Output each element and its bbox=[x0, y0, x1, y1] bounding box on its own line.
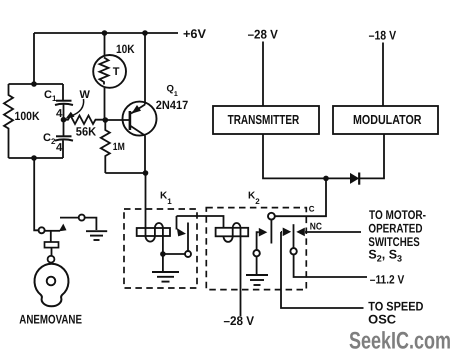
switch contact circle (vane common) bbox=[39, 227, 45, 233]
resistor 1M bbox=[101, 120, 110, 173]
svg-text:C2: C2 bbox=[43, 132, 56, 146]
wire coupler to eye bbox=[51, 248, 53, 256]
wire junction down to K2 common bbox=[275, 178, 326, 216]
wire to speed osc vertical bbox=[281, 232, 364, 308]
anemovane eye circle bbox=[48, 256, 55, 263]
svg-text:K2: K2 bbox=[248, 191, 260, 207]
svg-text:SeekIC.com: SeekIC.com bbox=[349, 328, 451, 355]
K2 right blade (NC) bbox=[293, 224, 295, 248]
wire collector down bbox=[144, 136, 146, 174]
resistor 56K bbox=[64, 116, 106, 125]
wire left drop from rail bbox=[33, 33, 35, 84]
box MODULATOR bbox=[333, 106, 438, 134]
node collector junction bbox=[143, 170, 149, 176]
K2 ground bbox=[246, 274, 268, 276]
wire 1M bottom to collector bbox=[105, 172, 145, 174]
K1 ground bbox=[162, 254, 164, 271]
switch blade with up arrow bbox=[45, 230, 60, 232]
svg-text:C1: C1 bbox=[44, 89, 57, 103]
transistor Q1 2N417 bbox=[123, 102, 157, 136]
resistor R 100K bbox=[4, 84, 13, 158]
wire diode to modulator bbox=[359, 134, 384, 178]
svg-text:+6V: +6V bbox=[183, 27, 207, 41]
anemovane body bbox=[35, 264, 69, 307]
wire emitter to rail bbox=[144, 33, 146, 105]
relay K1 dashed box bbox=[124, 209, 197, 288]
coupler rectangle bbox=[45, 242, 59, 248]
K2 left armature arrow from ground bbox=[257, 232, 259, 250]
wire NC with arrow bbox=[305, 231, 361, 233]
node rail-thermistor junction bbox=[102, 30, 108, 36]
svg-text:T: T bbox=[113, 66, 120, 78]
node base junction bbox=[103, 117, 109, 123]
diode CR1 bbox=[350, 173, 359, 184]
anemovane hub circle bbox=[47, 277, 56, 286]
Q1 base bar bbox=[129, 111, 132, 130]
relay K2 dashed box bbox=[206, 208, 306, 290]
ground (vane switch) bbox=[86, 230, 107, 232]
wire loop bottom bbox=[9, 157, 64, 159]
node loop bottom junction bbox=[31, 155, 37, 161]
svg-text:Q1: Q1 bbox=[167, 84, 178, 99]
svg-text:MODULATOR: MODULATOR bbox=[353, 112, 422, 127]
svg-text:4: 4 bbox=[56, 142, 63, 154]
svg-text:TRANSMITTER: TRANSMITTER bbox=[228, 112, 300, 127]
svg-text:100K: 100K bbox=[15, 109, 40, 123]
K1 blade bbox=[187, 223, 189, 252]
svg-text:W: W bbox=[80, 89, 91, 101]
Q1 emitter with arrow bbox=[131, 105, 145, 114]
wire -28V to transmitter bbox=[262, 42, 264, 107]
thermistor 10K wires bbox=[104, 33, 106, 55]
svg-text:1M: 1M bbox=[113, 141, 125, 153]
svg-text:S2, S3: S2, S3 bbox=[368, 248, 402, 264]
K2 coil bbox=[216, 228, 249, 237]
svg-text:OSC: OSC bbox=[368, 312, 396, 326]
svg-text:–28 V: –28 V bbox=[224, 314, 255, 328]
svg-text:NC: NC bbox=[310, 221, 322, 232]
wire K1 armature to K2 coil bbox=[177, 216, 224, 228]
K2 right armature arrow bbox=[281, 231, 282, 233]
Q1 collector bbox=[130, 126, 145, 136]
K1 fixed contact circle bbox=[166, 253, 185, 255]
K1 coil bbox=[145, 173, 147, 236]
wire +6V rail bbox=[34, 32, 178, 34]
svg-text:ANEMOVANE: ANEMOVANE bbox=[19, 313, 82, 327]
K2 common contact circle C bbox=[268, 213, 275, 220]
box TRANSMITTER bbox=[213, 106, 319, 134]
svg-text:–18 V: –18 V bbox=[369, 28, 397, 42]
svg-text:TO MOTOR-: TO MOTOR- bbox=[369, 208, 426, 222]
capacitor C1 bbox=[62, 84, 64, 100]
svg-text:TO SPEED: TO SPEED bbox=[368, 299, 423, 313]
svg-text:OPERATED: OPERATED bbox=[368, 221, 422, 235]
svg-text:C: C bbox=[309, 204, 315, 213]
K2 right lower contact circle bbox=[290, 248, 296, 254]
wire anemovane drop bbox=[34, 158, 38, 230]
Q1 base wire bbox=[105, 119, 129, 121]
wire transmitter down and across bbox=[263, 134, 351, 178]
K2 left blade bbox=[270, 220, 272, 244]
thermistor circle T bbox=[93, 55, 126, 88]
switch fixed contact to ground bbox=[60, 217, 79, 219]
svg-text:56K: 56K bbox=[76, 125, 97, 139]
wire -18V to modulator bbox=[382, 43, 384, 107]
node loop top junction bbox=[31, 81, 37, 87]
node W junction bbox=[61, 117, 67, 123]
K1 armature arrow bbox=[176, 216, 178, 230]
svg-text:–11.2 V: –11.2 V bbox=[370, 272, 405, 286]
node K1 coil bottom junction bbox=[160, 251, 166, 257]
svg-text:10K: 10K bbox=[116, 42, 135, 56]
wire loop top bbox=[9, 83, 64, 85]
node diode junction bbox=[323, 176, 329, 182]
node rail-emitter junction bbox=[142, 30, 148, 36]
svg-text:K1: K1 bbox=[160, 191, 172, 207]
wire to anemovane coupler bbox=[50, 231, 52, 242]
wire -11.2V from lower contact bbox=[294, 255, 367, 278]
svg-text:2N417: 2N417 bbox=[156, 98, 189, 112]
capacitor C2 bbox=[63, 120, 65, 136]
svg-text:–28 V: –28 V bbox=[248, 27, 279, 41]
